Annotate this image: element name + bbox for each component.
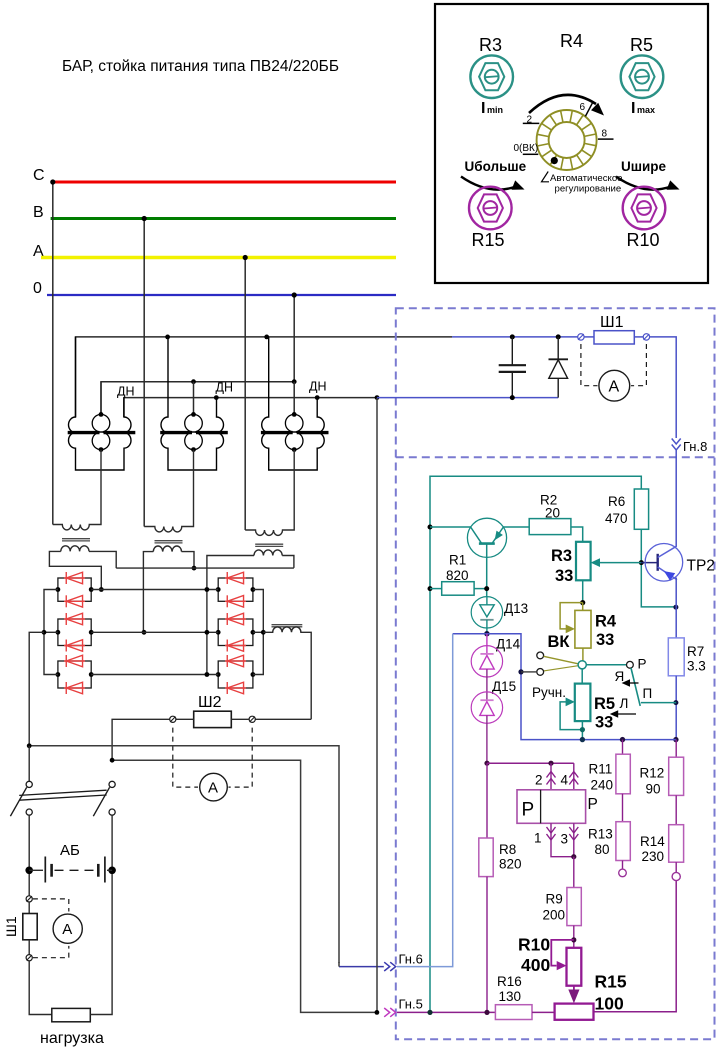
- wire bridge negative to switch pole 1: [27, 743, 32, 748]
- svg-text:Ш1: Ш1: [600, 314, 624, 331]
- wire neutral 0 feed: [293, 295, 295, 382]
- svg-text:470: 470: [605, 511, 628, 526]
- shunt Sh1 right terminal: [643, 334, 649, 340]
- svg-text:R6: R6: [608, 494, 625, 509]
- phase line A: [41, 256, 396, 260]
- jack Gn.5 chevrons: [384, 1008, 396, 1017]
- svg-text:R3: R3: [551, 547, 572, 565]
- svg-text:регулирование: регулирование: [555, 184, 622, 195]
- diode D1: [557, 337, 559, 359]
- svg-text:R15: R15: [472, 230, 505, 250]
- inductor output choke core: [272, 624, 303, 626]
- jack Gn.8 chevrons: [672, 439, 681, 451]
- shunt Sh1-left lower terminal: [26, 955, 32, 961]
- wire T3 secondary left lead: [207, 556, 254, 675]
- phase line C: [51, 181, 396, 184]
- wire DN bus: [124, 398, 377, 417]
- transformer DN1 center vertical wire: [100, 382, 102, 415]
- transformer DN2 left winding: [161, 337, 224, 470]
- dashed enclosure box: [396, 308, 715, 1039]
- diode group VD-L2 frame: [58, 619, 91, 646]
- transformer DN3 left winding: [262, 337, 325, 470]
- transformer T2 secondary coil: [153, 546, 181, 552]
- svg-text:R15: R15: [595, 972, 627, 992]
- dial R4 position marker: [551, 157, 558, 164]
- relay P body: [517, 790, 586, 824]
- svg-text:Гн.5: Гн.5: [399, 997, 423, 1012]
- svg-text:БАР, стойка питания типа ПВ24/: БАР, стойка питания типа ПВ24/220ББ: [62, 58, 339, 75]
- wire relay coil lead 1: [551, 823, 574, 856]
- phase line 0: [47, 294, 396, 296]
- shunt Sh2 body: [194, 711, 232, 727]
- transformer T3 secondary coil: [254, 550, 282, 556]
- svg-text:R5: R5: [594, 695, 615, 713]
- shunt Sh1-left body: [28, 902, 30, 914]
- dial R4 rotation arrow: [529, 95, 596, 113]
- wire T3 secondary right lead: [282, 556, 294, 568]
- wire T2 secondary right lead: [182, 552, 195, 569]
- ammeter A2: [200, 773, 228, 801]
- diode VD-L1 upper: [64, 577, 85, 579]
- wire load to battery side: [90, 874, 112, 1015]
- capacitor C1: [511, 337, 513, 365]
- resistor R13: [622, 794, 624, 822]
- svg-text:Р: Р: [588, 796, 598, 813]
- wire relay coil lead 4: [573, 763, 575, 790]
- diode VD-R2 lower: [225, 645, 246, 647]
- transformer T2 primary coil: [144, 450, 193, 532]
- transformer T3 core: [255, 543, 283, 545]
- wire filter bottom (blue): [377, 397, 558, 399]
- transformer DN2 core: [160, 431, 192, 434]
- svg-text:6: 6: [580, 102, 586, 113]
- svg-text:ДН: ДН: [216, 381, 234, 395]
- svg-text:П: П: [643, 686, 653, 701]
- phase line B: [51, 217, 396, 220]
- svg-text:Uшире: Uшире: [621, 159, 667, 174]
- transformer DN2 center vertical wire: [193, 382, 195, 415]
- contact R: [627, 661, 634, 668]
- transformer T1 core: [62, 538, 90, 540]
- switch VK lower contact: [537, 669, 544, 676]
- wire phase B feed: [143, 219, 145, 527]
- switch pole 2 upper contact: [109, 781, 115, 787]
- resistor R7: [675, 607, 677, 638]
- knob R15 rotation arrow: [461, 177, 516, 190]
- svg-text:Р: Р: [638, 657, 647, 672]
- svg-text:Д13: Д13: [504, 601, 528, 616]
- wire R2 to R3: [571, 527, 583, 542]
- svg-text:Д14: Д14: [496, 637, 521, 652]
- wire Sh1 to Gn.8: [650, 337, 677, 438]
- wire phase A feed: [244, 258, 246, 531]
- potentiometer R10: [567, 948, 582, 986]
- svg-text:820: 820: [446, 568, 469, 583]
- svg-text:Д15: Д15: [492, 679, 516, 694]
- svg-text:R16: R16: [497, 974, 522, 989]
- diode group VD-L1 frame: [58, 578, 91, 601]
- svg-text:Л: Л: [620, 696, 629, 711]
- wire T1 emitter to R2: [503, 526, 529, 528]
- transformer T3 primary coil: [245, 450, 294, 536]
- potentiometer R4: [582, 603, 584, 611]
- R10 wiper arrow down into R15: [573, 986, 575, 991]
- ammeter A1: [599, 370, 630, 401]
- switch pole 2 lower contact: [109, 809, 115, 815]
- switch pole 1 blade: [10, 787, 26, 816]
- svg-text:200: 200: [543, 908, 566, 923]
- wire T1 secondary right lead: [89, 551, 116, 568]
- battery AB: [25, 867, 33, 875]
- svg-text:230: 230: [642, 849, 665, 864]
- knob R10: [623, 187, 666, 230]
- transformer T1 secondary coil: [61, 546, 89, 552]
- transformer T2 core: [155, 540, 183, 542]
- svg-text:R7: R7: [687, 644, 704, 659]
- svg-text:min: min: [487, 105, 503, 115]
- svg-text:33: 33: [595, 714, 613, 732]
- resistor R2: [529, 519, 571, 535]
- diode D14: [486, 634, 488, 654]
- svg-text:A: A: [609, 379, 620, 396]
- wire Sh2 to switch pole 2: [112, 719, 170, 760]
- diode group VD-R2 frame: [218, 619, 253, 646]
- wire teal top bus: [430, 476, 641, 1012]
- svg-text:R12: R12: [640, 766, 665, 781]
- shunt Sh1 left terminal: [578, 334, 584, 340]
- wire choke to Sh2: [255, 718, 311, 720]
- diode group VD-R1 frame: [218, 578, 253, 601]
- transistor TR2 base wire: [641, 562, 657, 564]
- potentiometer R10 loop: [551, 940, 574, 966]
- transformer DN3 center vertical wire: [293, 382, 295, 415]
- svg-text:С: С: [33, 167, 45, 184]
- resistor R12: [675, 740, 677, 758]
- switch VK upper contact: [537, 652, 544, 659]
- resistor R16: [495, 1005, 532, 1020]
- diode D15: [471, 692, 502, 723]
- wire to Gn.5 jack: [112, 760, 375, 1012]
- node wiper common: [578, 661, 586, 669]
- wire collector lead T1: [428, 525, 433, 530]
- svg-text:АБ: АБ: [60, 842, 80, 859]
- resistor R9: [573, 857, 575, 888]
- shunt Sh2 left terminal: [170, 716, 176, 722]
- wire negative tap to switch: [29, 632, 44, 746]
- ammeter A1 dashed leads: [581, 344, 598, 386]
- transformer DN2 center winding: [185, 414, 203, 432]
- svg-text:1: 1: [534, 831, 542, 846]
- selector arrow lower: [617, 713, 637, 715]
- svg-text:Гн.8: Гн.8: [683, 439, 707, 454]
- svg-text:R14: R14: [640, 834, 665, 849]
- diode VD-R3 upper: [225, 660, 246, 662]
- diode VD-L3 upper: [64, 660, 85, 662]
- wire contact P to blue rail: [641, 702, 676, 704]
- svg-text:0: 0: [33, 280, 42, 297]
- svg-text:Ш1: Ш1: [3, 916, 19, 937]
- svg-text:нагрузка: нагрузка: [40, 1030, 104, 1047]
- transformer DN1 left winding: [68, 337, 131, 470]
- diode VD-L1 lower: [64, 600, 85, 602]
- wire blue right branch: [487, 634, 676, 740]
- ammeter A3 dashed leads: [33, 899, 69, 912]
- svg-text:Ш2: Ш2: [198, 694, 222, 711]
- svg-text:4: 4: [561, 773, 569, 788]
- svg-text:240: 240: [591, 778, 614, 793]
- wire relay top rail: [487, 762, 574, 764]
- knob R15: [469, 187, 512, 230]
- svg-text:ВК: ВК: [548, 633, 571, 651]
- switch pole 2 blade: [93, 787, 109, 816]
- knob R5: [621, 55, 664, 98]
- wire relay coil lead 3: [573, 823, 575, 856]
- svg-text:Ручн.: Ручн.: [532, 685, 566, 700]
- wire R3 bottom to R4: [582, 580, 584, 602]
- transformer DN1 center winding: [92, 414, 110, 432]
- potentiometer R15: [555, 1004, 594, 1020]
- wire T1 secondary left lead: [49, 551, 101, 589]
- svg-text:R4: R4: [560, 31, 583, 51]
- wire TR2 emitter down: [675, 578, 677, 608]
- svg-text:R9: R9: [546, 892, 563, 907]
- svg-text:Я: Я: [615, 669, 625, 684]
- svg-text:33: 33: [596, 631, 614, 649]
- knob R10 rotation arrow: [616, 177, 671, 190]
- svg-text:Гн.6: Гн.6: [399, 952, 423, 967]
- svg-text:Автоматическое: Автоматическое: [550, 173, 623, 184]
- svg-text:R1: R1: [449, 553, 466, 568]
- svg-text:90: 90: [646, 782, 661, 797]
- selector blade R-P: [631, 668, 640, 706]
- wire to load: [29, 961, 52, 1015]
- switch pole 1 lower contact: [26, 809, 32, 815]
- inductor output choke winding: [263, 627, 311, 719]
- wire DN bus to Gn.5: [376, 398, 378, 1013]
- svg-text:130: 130: [499, 989, 522, 1004]
- wire blue left branch to Gn.6: [453, 633, 487, 635]
- resistor R6: [634, 489, 648, 529]
- wire to Gn.6 jack: [29, 746, 339, 963]
- svg-text:0(ВК): 0(ВК): [514, 143, 539, 154]
- potentiometer R3 wiper: [599, 562, 641, 564]
- potentiometer R3: [576, 542, 591, 581]
- terminal after R13: [622, 861, 624, 870]
- switch pole 1 upper contact: [26, 781, 32, 787]
- diode group VD-R3 frame: [218, 661, 253, 688]
- wire R15 to R14 branch: [594, 881, 677, 1012]
- svg-text:ТР2: ТР2: [687, 558, 715, 575]
- transformer DN1 core: [68, 431, 100, 434]
- diode VD-R1 lower: [225, 600, 246, 602]
- shunt Sh2 right terminal: [249, 716, 255, 722]
- svg-text:820: 820: [499, 857, 522, 872]
- wire pole1 to battery: [28, 815, 30, 896]
- resistor R1: [428, 586, 433, 591]
- transformer T1 primary coil: [53, 450, 101, 530]
- svg-text:33: 33: [555, 567, 573, 585]
- dashed divider: [396, 456, 715, 458]
- svg-text:400: 400: [521, 955, 550, 975]
- svg-text:ДН: ДН: [117, 385, 135, 399]
- diode VD-L2 lower: [64, 645, 85, 647]
- transistor TR2: [645, 544, 683, 582]
- shunt Sh1-left upper terminal: [26, 896, 32, 902]
- resistor load (nagruzka): [52, 1008, 91, 1021]
- potentiometer R4 feedback loop: [560, 603, 583, 629]
- potentiometer R5 feedback loop: [560, 702, 582, 730]
- svg-text:Uбольше: Uбольше: [465, 159, 527, 174]
- svg-text:R10: R10: [518, 935, 550, 955]
- resistor R8: [486, 763, 488, 838]
- ammeter A2 dashed leads: [173, 728, 198, 788]
- dial R4 ring: [537, 110, 597, 170]
- selector arrow upper: [628, 682, 639, 684]
- resistor R14: [675, 795, 677, 824]
- svg-text:Р: Р: [522, 800, 535, 821]
- wire D15 to relay rail: [486, 715, 488, 763]
- svg-text:max: max: [637, 105, 655, 115]
- wire T2 secondary left lead: [143, 552, 153, 633]
- transformer DN3 core: [261, 431, 293, 434]
- control panel box: [435, 4, 708, 283]
- wire phase C feed: [52, 182, 54, 525]
- svg-text:R5: R5: [630, 35, 653, 55]
- relay arrows up: [547, 772, 556, 785]
- wire AC row 1: [91, 589, 218, 591]
- svg-text:8: 8: [602, 129, 608, 140]
- svg-text:100: 100: [595, 994, 624, 1014]
- wire R6 bottom to emitter junction: [641, 529, 676, 607]
- wire node to contact R: [586, 664, 626, 666]
- transformer DN3 center winding: [285, 414, 303, 432]
- svg-text:R10: R10: [627, 230, 660, 250]
- wire secondary star bus: [116, 567, 294, 569]
- jack Gn.6 chevrons: [384, 962, 396, 971]
- relay arrows down: [547, 827, 556, 840]
- wire bus to rectifier filter (top): [76, 337, 453, 417]
- wire VK lower contact to blue net: [518, 669, 523, 674]
- diode VD-L2 upper: [64, 618, 85, 620]
- svg-text:В: В: [33, 204, 44, 221]
- wire AC row 3: [91, 674, 218, 676]
- svg-text:A: A: [208, 780, 218, 797]
- svg-text:R11: R11: [589, 762, 613, 777]
- resistor R11: [622, 740, 624, 755]
- knob R3: [470, 55, 513, 98]
- diode group VD-L3 frame: [58, 661, 91, 688]
- wire pole2 to battery: [111, 815, 113, 870]
- switch VK blade lower: [544, 666, 579, 671]
- jack Gn.5 rail: [397, 1011, 495, 1013]
- svg-text:2: 2: [535, 773, 543, 788]
- shunt Sh1 body: [584, 336, 594, 338]
- svg-text:R4: R4: [595, 613, 617, 631]
- wire filter top (blue): [452, 336, 578, 338]
- diode D13: [471, 597, 502, 628]
- svg-text:R13: R13: [588, 827, 613, 842]
- ammeter A3: [53, 914, 82, 943]
- diode VD-R2 upper: [225, 618, 246, 620]
- svg-text:R8: R8: [499, 842, 516, 857]
- wire node to R5: [581, 669, 583, 684]
- svg-text:3.3: 3.3: [687, 659, 706, 674]
- terminal after R14: [675, 862, 677, 872]
- transistor T1: [467, 518, 506, 557]
- switch VK blade upper: [544, 656, 579, 664]
- wire left bridge anode bus: [44, 590, 58, 675]
- svg-text:80: 80: [595, 842, 610, 857]
- diode VD-L3 lower: [64, 687, 85, 689]
- wire right bridge cathode bus: [253, 590, 263, 675]
- diode VD-R3 lower: [225, 687, 246, 689]
- switch linkage: [19, 790, 106, 795]
- wire Gn.8 to TR2 collector: [675, 450, 677, 547]
- svg-text:A: A: [62, 921, 72, 938]
- potentiometer R5: [575, 684, 591, 722]
- svg-text:I: I: [631, 100, 635, 117]
- svg-text:R3: R3: [479, 35, 502, 55]
- svg-text:I: I: [481, 100, 485, 117]
- wire neutral bus of primaries: [101, 382, 294, 415]
- svg-text:ДН: ДН: [309, 380, 327, 394]
- dial auto mode label: [542, 172, 550, 182]
- wire AC row 2: [91, 631, 218, 633]
- diode VD-R1 upper: [225, 577, 246, 579]
- jack Gn.6 wire (light blue): [397, 634, 453, 967]
- wire relay coil lead 2: [550, 763, 552, 790]
- svg-text:3: 3: [561, 832, 569, 847]
